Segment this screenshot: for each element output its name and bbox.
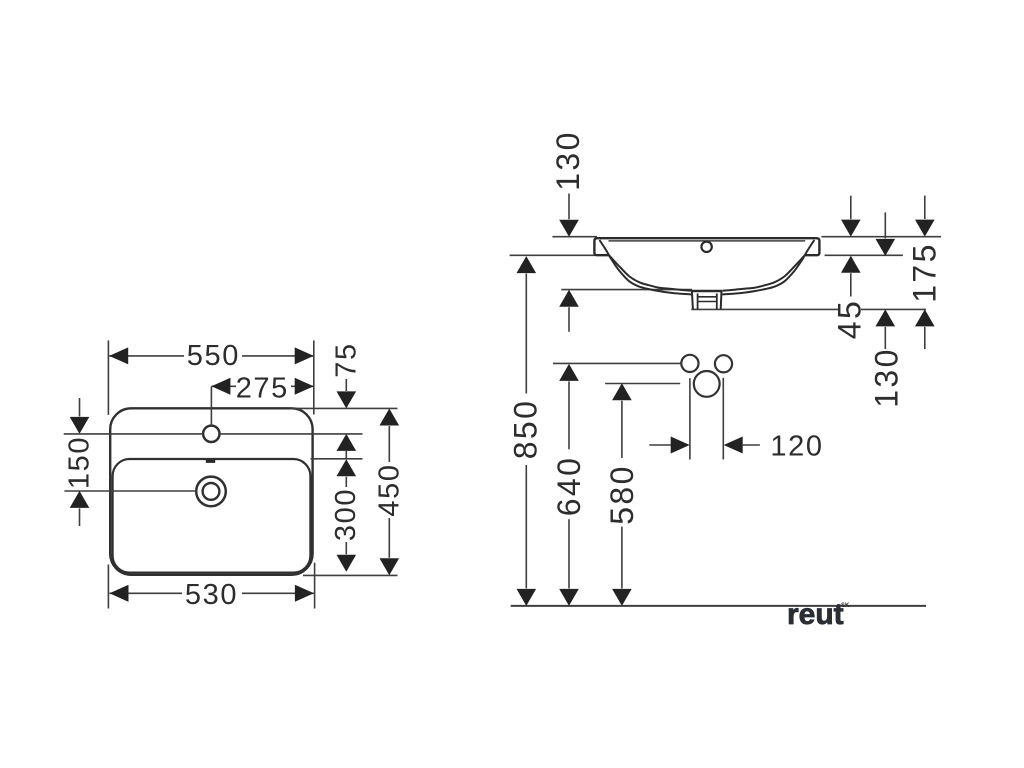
logo reut bbox=[787, 598, 850, 631]
dimension 530 bbox=[108, 563, 314, 611]
bowl curve outer-left bbox=[609, 255, 691, 290]
svg-text:45: 45 bbox=[832, 299, 868, 339]
overflow tick bbox=[206, 460, 215, 463]
dimension 130 right bbox=[868, 212, 904, 407]
dimension 275 bbox=[211, 373, 313, 405]
bowl curve inner-right bbox=[722, 240, 814, 294]
underside reference line right bbox=[825, 254, 903, 256]
svg-text:300: 300 bbox=[330, 488, 362, 541]
extension line bottom right of rect bbox=[303, 574, 398, 576]
svg-text:580: 580 bbox=[604, 464, 640, 525]
svg-text:120: 120 bbox=[770, 430, 823, 462]
svg-text:150: 150 bbox=[64, 436, 96, 489]
dimension 150 bbox=[64, 398, 96, 526]
basin inner rim line (front view) bbox=[609, 240, 806, 242]
faucet handle hole (front view) bbox=[694, 371, 720, 397]
svg-text:175: 175 bbox=[906, 242, 942, 303]
leader line 640 level bbox=[553, 362, 681, 364]
svg-text:640: 640 bbox=[551, 456, 587, 517]
dimension 120 bbox=[649, 430, 823, 462]
dimension 175 bbox=[906, 196, 942, 349]
tap hole (top view) bbox=[203, 426, 219, 442]
dimension 450 bbox=[373, 409, 405, 576]
tap hole (front view) bbox=[701, 242, 711, 252]
svg-text:SK: SK bbox=[841, 603, 850, 609]
leader line through tap hole bbox=[64, 433, 203, 435]
dimension 850 bbox=[508, 256, 544, 606]
floor line bbox=[511, 605, 926, 607]
drain outer circle (top view) bbox=[196, 477, 226, 507]
svg-text:75: 75 bbox=[331, 342, 363, 377]
underside reference line left bbox=[510, 254, 595, 256]
bowl curve outer-right bbox=[722, 255, 804, 290]
dimension 580 bbox=[604, 383, 640, 606]
rim reference line right bbox=[822, 236, 942, 238]
rim reference line left bbox=[552, 236, 597, 238]
leader line 580 level bbox=[605, 383, 680, 385]
dimension 45 bbox=[832, 196, 868, 340]
svg-text:130: 130 bbox=[550, 130, 586, 191]
faucet hole left (front view) bbox=[681, 355, 698, 372]
faucet hole right (front view) bbox=[715, 355, 732, 372]
svg-text:850: 850 bbox=[508, 399, 544, 460]
svg-text:530: 530 bbox=[185, 579, 238, 611]
faucet extension line right bbox=[722, 378, 724, 460]
svg-text:275: 275 bbox=[236, 373, 289, 405]
leader line through drain bbox=[64, 490, 196, 492]
svg-text:550: 550 bbox=[187, 340, 240, 372]
svg-text:reut: reut bbox=[787, 598, 844, 631]
bowl curve inner-left bbox=[600, 240, 692, 294]
dimension 130 top bbox=[550, 130, 586, 332]
basin profile outline (front view) bbox=[594, 238, 819, 255]
dimension 75 bbox=[331, 342, 363, 459]
drain inner circle (top view) bbox=[203, 483, 220, 500]
bowl depth leader line bbox=[561, 289, 692, 291]
svg-text:450: 450 bbox=[373, 463, 405, 516]
faucet extension line left bbox=[689, 378, 691, 459]
dimension 300 bbox=[330, 459, 362, 572]
extension line top right of rect bbox=[290, 407, 398, 409]
dimension 550 bbox=[108, 340, 313, 415]
basin inner bowl edge (top view) bbox=[113, 459, 311, 573]
svg-text:130: 130 bbox=[868, 347, 904, 408]
dimension 640 bbox=[551, 364, 587, 606]
extension from tap hole up to 275 dim bbox=[210, 387, 212, 426]
drain fitting (front view) bbox=[691, 291, 722, 309]
basin outer rim (top view) bbox=[110, 408, 312, 575]
extension line inner-rect top right bbox=[311, 458, 363, 460]
basin bottom reference line bbox=[691, 308, 838, 310]
